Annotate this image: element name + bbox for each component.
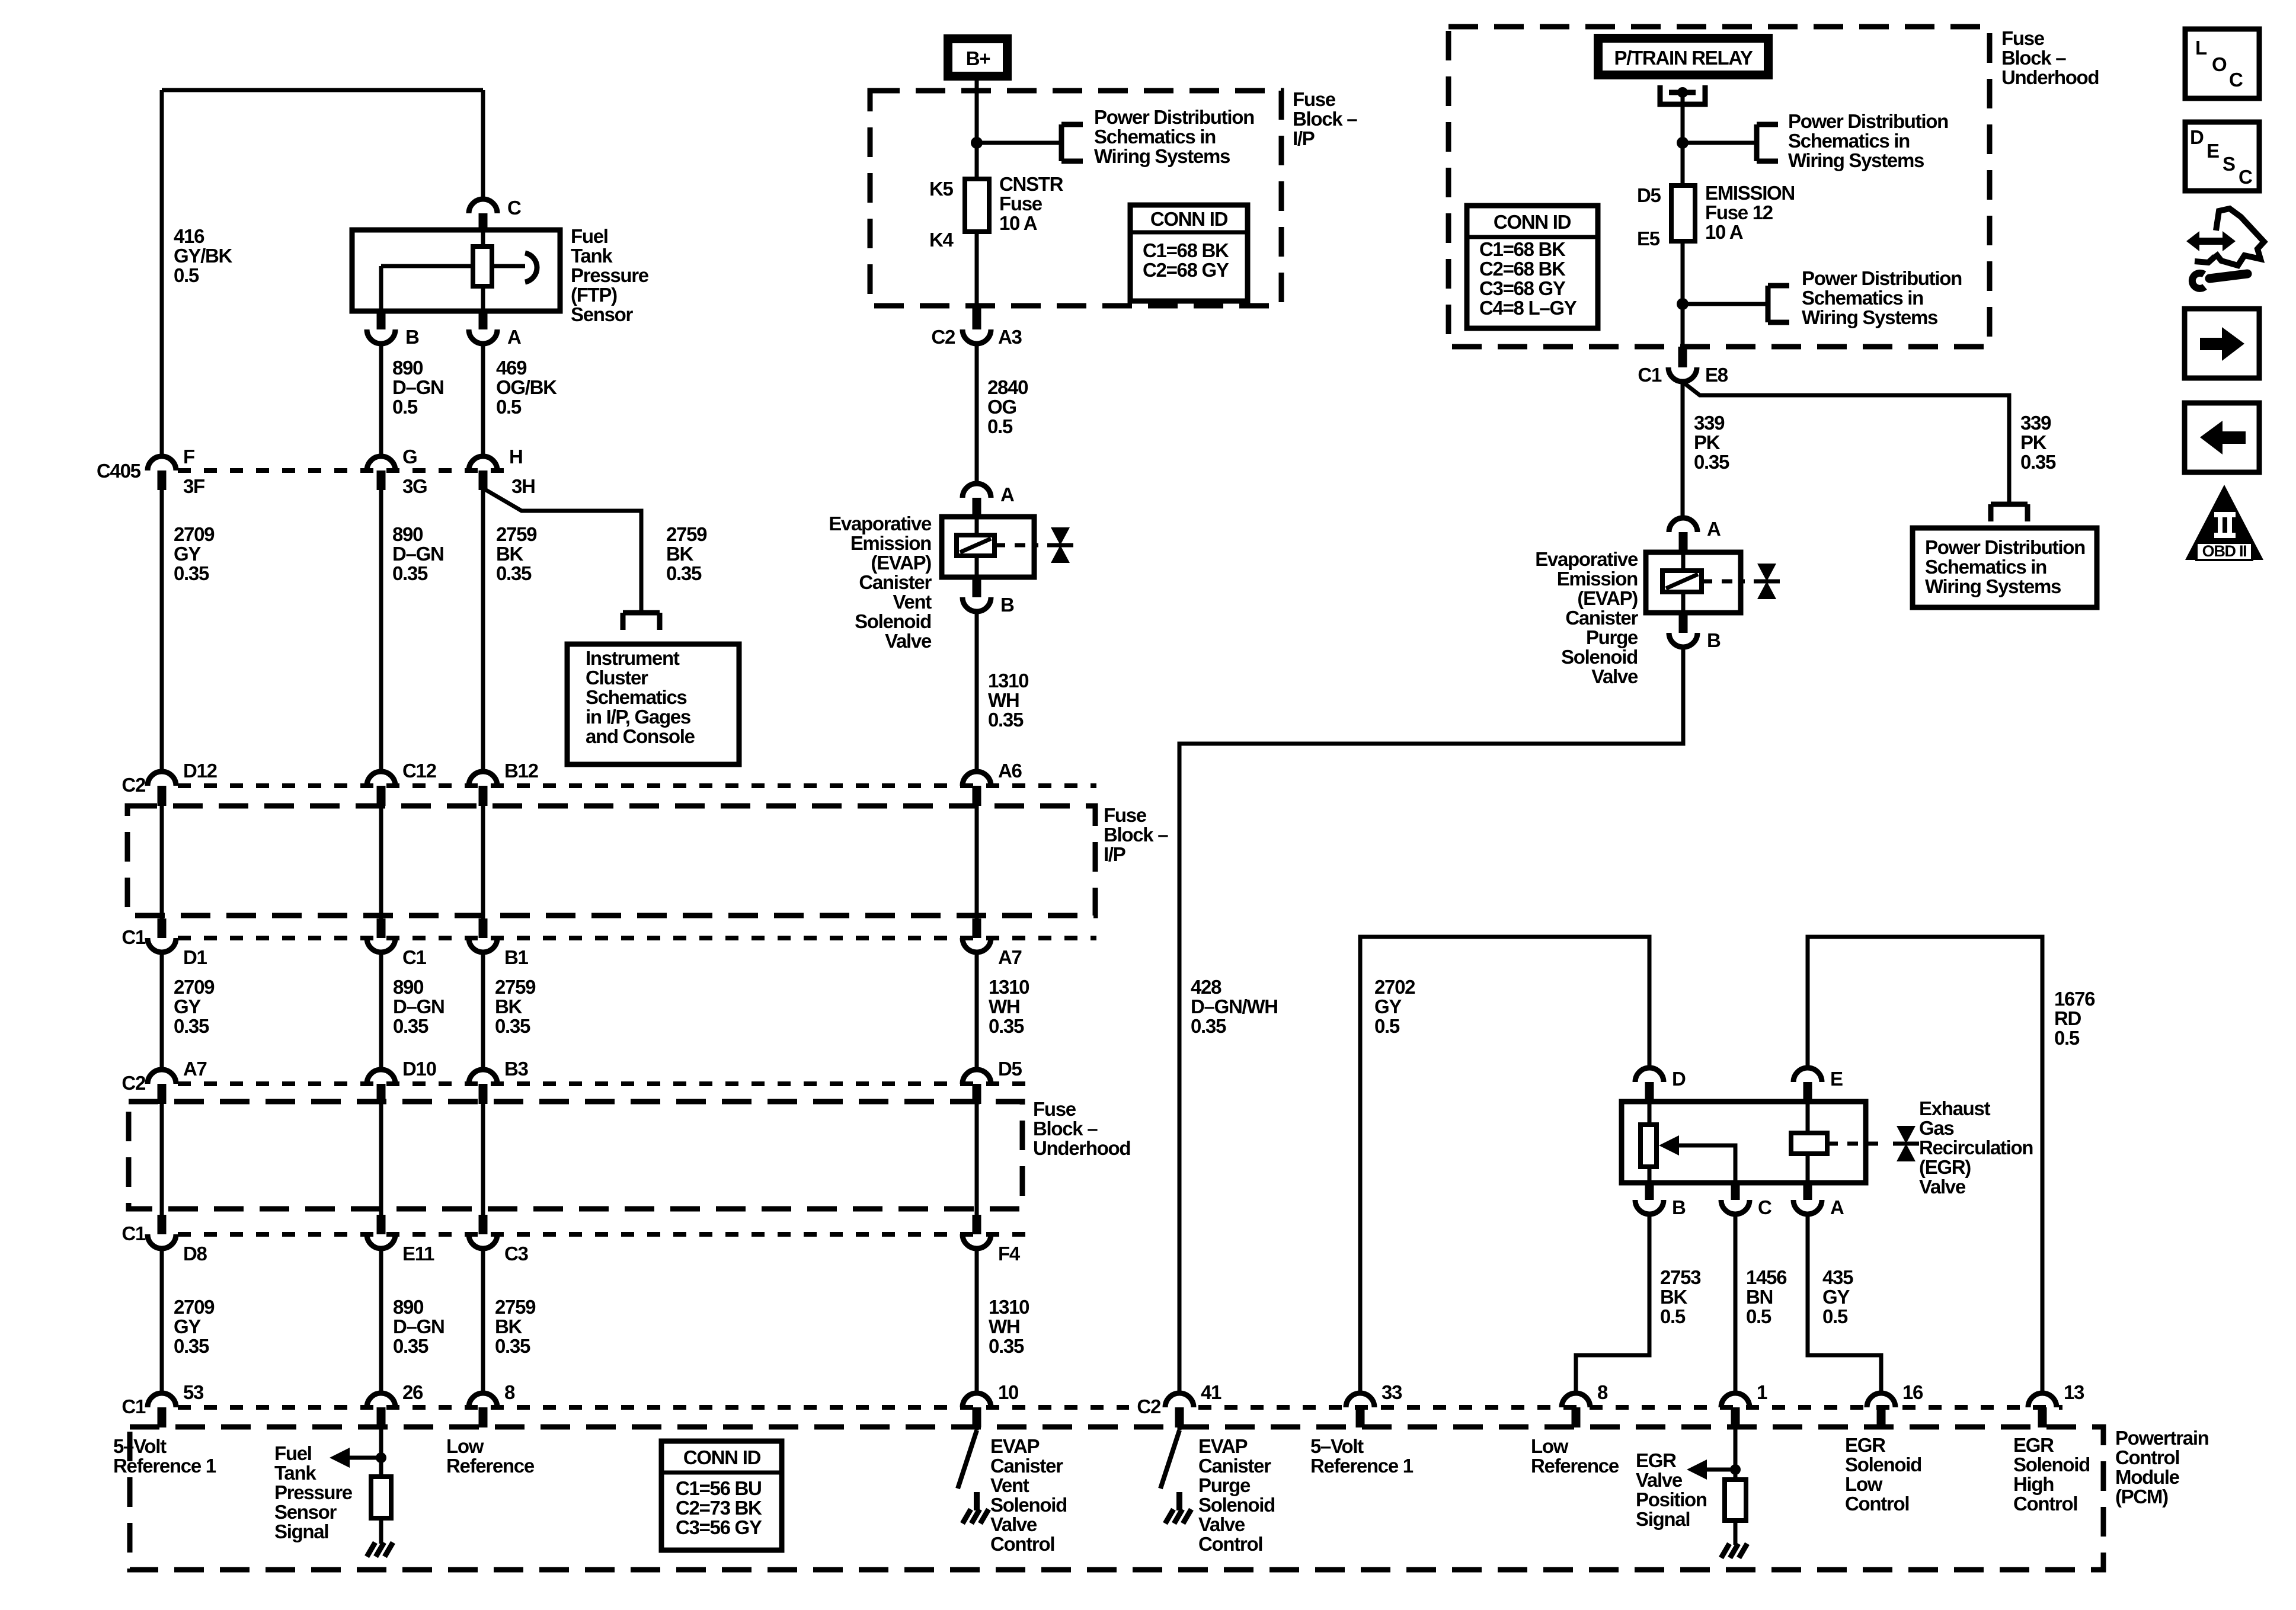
fork to power distribution 3 xyxy=(1768,286,1789,322)
connector C1 pin F4 xyxy=(962,1234,1021,1265)
svg-text:Valve: Valve xyxy=(1198,1513,1245,1535)
svg-text:C3=68 GY: C3=68 GY xyxy=(1479,277,1566,299)
terminal to instrument cluster xyxy=(623,613,660,630)
wire through underhood fuse block xyxy=(158,1104,167,1234)
svg-text:2759: 2759 xyxy=(495,976,536,998)
label 890 D-GN 0.5 xyxy=(392,357,444,418)
svg-text:Canister: Canister xyxy=(1565,607,1638,629)
svg-text:D1: D1 xyxy=(183,946,207,968)
wire 469 OG/BK from pin A xyxy=(481,344,485,456)
svg-text:S: S xyxy=(2223,153,2235,175)
connector row C1 dashed (D1) xyxy=(178,936,1096,940)
label Power Distribution Schematics box xyxy=(1925,536,2085,597)
svg-text:Fuse: Fuse xyxy=(2001,27,2045,49)
wire D1 to A7 xyxy=(975,952,979,1070)
wire through I/P fuse block xyxy=(158,806,167,938)
wire D8 to PCM xyxy=(481,1249,485,1393)
wire through underhood fuse block xyxy=(973,1104,981,1234)
svg-text:Valve: Valve xyxy=(990,1513,1037,1535)
connector C1 pin D1 xyxy=(148,938,207,968)
svg-text:Schematics: Schematics xyxy=(586,686,686,708)
connector row PCM dotted left xyxy=(178,1405,1129,1410)
label D5 fuse xyxy=(1637,184,1661,206)
svg-text:WH: WH xyxy=(989,1315,1019,1337)
svg-text:Valve: Valve xyxy=(885,630,932,652)
svg-text:Purge: Purge xyxy=(1586,626,1638,648)
svg-text:Fuse: Fuse xyxy=(1033,1098,1076,1120)
label 1676 RD 0.5 xyxy=(2054,988,2095,1049)
icon OBD II triangle xyxy=(2185,485,2263,560)
svg-text:C: C xyxy=(1758,1196,1771,1218)
svg-text:C3=56 GY: C3=56 GY xyxy=(676,1516,762,1538)
svg-text:33: 33 xyxy=(1382,1381,1402,1403)
label E5 fuse xyxy=(1637,228,1660,249)
connector C2 pin B3 xyxy=(469,1058,529,1104)
svg-text:Control: Control xyxy=(1845,1493,1909,1515)
svg-text:Control: Control xyxy=(990,1533,1054,1555)
EGR wiper arrow xyxy=(1659,1135,1735,1183)
svg-text:C1: C1 xyxy=(402,946,427,968)
svg-text:2709: 2709 xyxy=(174,976,215,998)
svg-text:P/TRAIN RELAY: P/TRAIN RELAY xyxy=(1614,47,1753,69)
svg-text:O: O xyxy=(2212,53,2227,75)
svg-text:339: 339 xyxy=(1694,412,1725,434)
junction dot B+ xyxy=(971,137,983,149)
icon back arrow box xyxy=(2185,403,2259,472)
EGR position signal arrow xyxy=(1687,1459,1735,1480)
wire 2840 OG xyxy=(975,344,979,484)
svg-text:BK: BK xyxy=(495,1315,523,1337)
label Fuel Tank Pressure (FTP) Sensor xyxy=(571,225,649,325)
EVAP purge driver switch xyxy=(1160,1427,1179,1489)
svg-text:GY: GY xyxy=(174,543,201,565)
svg-text:C2=68 BK: C2=68 BK xyxy=(1479,258,1566,280)
fuse block I/P dashed box 2 xyxy=(127,806,1095,916)
label EGR Solenoid High Control xyxy=(2013,1434,2090,1515)
svg-text:Underhood: Underhood xyxy=(1033,1137,1130,1159)
label Fuse Block I/P 2 xyxy=(1104,804,1168,865)
svg-text:A: A xyxy=(507,326,521,348)
svg-text:Solenoid: Solenoid xyxy=(855,610,931,632)
fuse EMISSION xyxy=(1671,185,1695,241)
svg-text:D10: D10 xyxy=(402,1058,436,1080)
svg-text:CONN ID: CONN ID xyxy=(1494,211,1571,233)
svg-text:0.35: 0.35 xyxy=(393,1015,428,1037)
svg-text:Block –: Block – xyxy=(2001,47,2066,69)
svg-text:D–GN: D–GN xyxy=(393,996,445,1017)
wire through I/P fuse block xyxy=(377,806,386,938)
svg-text:Fuse: Fuse xyxy=(999,193,1043,215)
svg-text:WH: WH xyxy=(988,689,1019,711)
label 5-Volt Reference 1 right xyxy=(1310,1435,1414,1477)
svg-text:Low: Low xyxy=(446,1435,484,1457)
svg-text:Tank: Tank xyxy=(571,245,613,267)
wire resistor to ground xyxy=(379,1518,383,1544)
svg-text:10: 10 xyxy=(998,1381,1018,1403)
wire label xyxy=(495,1296,536,1357)
svg-text:Block –: Block – xyxy=(1033,1118,1098,1140)
svg-text:0.5: 0.5 xyxy=(496,396,522,418)
svg-text:435: 435 xyxy=(1822,1266,1853,1288)
svg-text:GY: GY xyxy=(174,1315,201,1337)
svg-text:C3: C3 xyxy=(504,1243,529,1265)
relay socket symbol xyxy=(1660,85,1705,104)
svg-text:B+: B+ xyxy=(966,47,990,69)
svg-text:EVAP: EVAP xyxy=(1198,1435,1248,1457)
EVAP canister purge solenoid valve box xyxy=(1646,552,1741,613)
svg-text:Solenoid: Solenoid xyxy=(2013,1454,2090,1475)
wire 1676 RD loop xyxy=(1808,937,2042,1393)
svg-text:Schematics in: Schematics in xyxy=(1925,556,2046,578)
label K5 xyxy=(929,178,954,200)
fuse block Underhood dashed box 2 xyxy=(129,1102,1022,1209)
svg-text:D–GN: D–GN xyxy=(392,543,444,565)
EVAP vent valve pin A xyxy=(962,484,1014,518)
svg-text:C1: C1 xyxy=(121,926,146,948)
connector C405 pin F xyxy=(148,446,204,497)
wire pin 1 to resistor xyxy=(1734,1427,1738,1480)
wire 890 D-GN from pin B xyxy=(379,344,383,456)
FTP pin B xyxy=(367,311,419,348)
label C405 xyxy=(97,460,141,482)
wire through I/P fuse block xyxy=(479,806,488,938)
wire 890 D-GN seg2 xyxy=(379,490,383,772)
svg-text:Canister: Canister xyxy=(859,571,932,593)
connector C405 pin G xyxy=(367,446,427,497)
wire 2709 GY seg1 xyxy=(160,490,164,772)
wire EGR resistor to ground xyxy=(1734,1521,1738,1545)
connector C1 pin C3 xyxy=(469,1234,529,1265)
connector row C2 dashed (A7) xyxy=(178,1081,1025,1086)
svg-text:D5: D5 xyxy=(1637,184,1661,206)
svg-text:C4=8 L–GY: C4=8 L–GY xyxy=(1479,297,1577,319)
svg-text:Sensor: Sensor xyxy=(571,303,634,325)
connector C2 pin D12 xyxy=(148,760,218,806)
svg-text:Pressure: Pressure xyxy=(571,264,649,286)
svg-text:EGR: EGR xyxy=(2013,1434,2054,1456)
svg-text:(EVAP): (EVAP) xyxy=(1577,587,1638,609)
svg-text:Powertrain: Powertrain xyxy=(2115,1427,2209,1449)
svg-text:0.35: 0.35 xyxy=(174,1335,209,1357)
instrument cluster box xyxy=(567,644,739,764)
svg-text:EGR: EGR xyxy=(1636,1449,1677,1471)
svg-text:Canister: Canister xyxy=(990,1455,1063,1477)
svg-text:D–GN/WH: D–GN/WH xyxy=(1191,996,1278,1017)
connector C2 pin D5 xyxy=(962,1058,1022,1104)
svg-text:(PCM): (PCM) xyxy=(2115,1486,2168,1507)
svg-text:B3: B3 xyxy=(504,1058,529,1080)
svg-text:0.35: 0.35 xyxy=(392,562,428,584)
label Low Reference left xyxy=(446,1435,535,1477)
wire left column F segment xyxy=(160,90,164,456)
svg-text:890: 890 xyxy=(392,357,423,379)
CONN ID box I/P xyxy=(1130,205,1248,301)
wire D8 to PCM xyxy=(379,1249,383,1393)
svg-text:Reference 1: Reference 1 xyxy=(1310,1455,1414,1477)
svg-text:PK: PK xyxy=(2020,431,2047,453)
wire D8 to PCM xyxy=(160,1249,164,1393)
svg-text:Signal: Signal xyxy=(1636,1508,1690,1530)
svg-text:Canister: Canister xyxy=(1198,1455,1271,1477)
exhaust gas recirculation EGR valve box xyxy=(1622,1102,1866,1183)
svg-text:OBD II: OBD II xyxy=(2202,542,2247,560)
svg-text:Emission: Emission xyxy=(850,532,931,554)
FTP sensor resistor xyxy=(473,230,492,311)
label C1 row PCM xyxy=(121,1395,146,1417)
label 2759 BK 0.35 branch xyxy=(666,523,707,584)
svg-text:Schematics in: Schematics in xyxy=(1094,126,1216,148)
svg-text:Low: Low xyxy=(1531,1435,1569,1457)
svg-text:41: 41 xyxy=(1201,1381,1221,1403)
connector C405 pin H xyxy=(469,446,535,497)
wire fuse to junction 2 xyxy=(1681,241,1685,347)
EVAP purge valve pin A xyxy=(1669,518,1721,552)
svg-text:D–GN: D–GN xyxy=(393,1315,445,1337)
svg-text:Position: Position xyxy=(1636,1489,1707,1510)
svg-text:0.35: 0.35 xyxy=(989,1335,1024,1357)
svg-text:339: 339 xyxy=(2020,412,2051,434)
PCM pin 41 xyxy=(1165,1381,1221,1427)
wire 2753 BK xyxy=(1576,1214,1649,1393)
svg-text:B: B xyxy=(1707,629,1721,651)
label Exhaust Gas Recirculation (EGR) Valve xyxy=(1919,1097,2033,1198)
svg-text:EMISSION: EMISSION xyxy=(1705,182,1795,204)
svg-text:C2: C2 xyxy=(1137,1395,1161,1417)
svg-text:L: L xyxy=(2195,37,2207,59)
wire through underhood fuse block xyxy=(377,1104,386,1234)
svg-text:0.5: 0.5 xyxy=(1374,1015,1400,1037)
EVAP vent ground contact xyxy=(962,1492,989,1523)
wire 1456 BN xyxy=(1734,1214,1738,1393)
svg-text:A6: A6 xyxy=(998,760,1022,782)
svg-text:8: 8 xyxy=(1597,1381,1608,1403)
CONN ID box Underhood xyxy=(1467,206,1598,328)
svg-text:C12: C12 xyxy=(402,760,437,782)
wire 1310 WH seg1 xyxy=(975,612,979,772)
label C2 row D12 xyxy=(121,774,146,796)
wire D1 to A7 xyxy=(160,952,164,1070)
wire pin 26 to resistor xyxy=(379,1427,383,1477)
svg-text:H: H xyxy=(509,446,523,468)
icon repair instructions (arrow and wrench) xyxy=(2186,209,2264,289)
svg-text:0.5: 0.5 xyxy=(392,396,418,418)
svg-text:RD: RD xyxy=(2054,1007,2081,1029)
junction dot relay 2 xyxy=(1677,298,1689,310)
svg-text:Pressure: Pressure xyxy=(274,1481,353,1503)
svg-text:OG/BK: OG/BK xyxy=(496,376,557,398)
wire branch to power distribution 3 xyxy=(1683,302,1768,306)
svg-text:C: C xyxy=(2239,166,2252,188)
PCM pin 16 xyxy=(1867,1381,1923,1427)
svg-text:F: F xyxy=(183,446,194,468)
svg-text:0.35: 0.35 xyxy=(495,1015,530,1037)
svg-text:A: A xyxy=(1707,518,1721,540)
connector C1 pin D8 xyxy=(148,1234,207,1265)
svg-text:A: A xyxy=(1000,484,1014,505)
svg-text:8: 8 xyxy=(504,1381,515,1403)
wire label xyxy=(495,976,536,1037)
svg-text:A7: A7 xyxy=(998,946,1022,968)
ground FTP signal xyxy=(367,1542,393,1557)
svg-text:Purge: Purge xyxy=(1198,1474,1251,1496)
svg-text:C2=73 BK: C2=73 BK xyxy=(676,1497,762,1519)
wire branch to power distribution 1 xyxy=(977,141,1061,145)
junction dot relay 1 xyxy=(1677,137,1689,149)
EVAP canister vent solenoid valve box xyxy=(942,517,1034,577)
label 2709 GY 0.35 a xyxy=(174,523,215,584)
icon LOC box xyxy=(2185,29,2259,98)
svg-text:C1: C1 xyxy=(1638,364,1662,386)
svg-text:0.35: 0.35 xyxy=(393,1335,428,1357)
FTP sensor pin C xyxy=(469,197,521,231)
svg-text:E11: E11 xyxy=(402,1243,434,1265)
FTP pin A xyxy=(469,311,521,348)
label EVAP Canister Purge Solenoid Valve Control xyxy=(1198,1435,1275,1555)
PCM pin 33 xyxy=(1346,1381,1402,1427)
EVAP purge valve pin B xyxy=(1669,613,1721,651)
PCM pin 8 xyxy=(469,1381,515,1427)
label 339 PK 0.35 left xyxy=(1694,412,1729,473)
PCM pin 53 xyxy=(148,1381,204,1427)
EGR valve pin C xyxy=(1721,1183,1771,1218)
svg-text:Block –: Block – xyxy=(1104,824,1168,846)
svg-text:Schematics in: Schematics in xyxy=(1802,287,1923,309)
connector C2/A3 pin xyxy=(931,306,1022,348)
PCM pin 10 xyxy=(962,1381,1018,1427)
svg-text:Evaporative: Evaporative xyxy=(1535,548,1638,570)
svg-text:Reference: Reference xyxy=(446,1455,535,1477)
svg-text:I/P: I/P xyxy=(1104,843,1125,865)
svg-text:(EVAP): (EVAP) xyxy=(871,552,931,574)
svg-text:Block –: Block – xyxy=(1293,108,1357,130)
label EMISSION Fuse 12 10A xyxy=(1705,182,1795,243)
svg-text:Solenoid: Solenoid xyxy=(1561,646,1638,668)
svg-text:Instrument: Instrument xyxy=(586,647,680,669)
PCM pin 26 xyxy=(367,1381,423,1427)
svg-text:B: B xyxy=(405,326,419,348)
label 339 PK 0.35 right xyxy=(2020,412,2056,473)
svg-text:C: C xyxy=(507,197,521,219)
label C2 row A7 xyxy=(121,1072,146,1094)
wire label xyxy=(393,1296,445,1357)
connector C2 pin A7 xyxy=(148,1058,207,1104)
svg-text:0.5: 0.5 xyxy=(1746,1305,1771,1327)
svg-text:2759: 2759 xyxy=(496,523,537,545)
label Power Distribution Schematics 1 xyxy=(1094,106,1254,167)
label 469 OG/BK 0.5 xyxy=(496,357,557,418)
svg-text:16: 16 xyxy=(1902,1381,1923,1403)
EGR valve pin B xyxy=(1635,1183,1686,1218)
svg-text:E8: E8 xyxy=(1705,364,1728,386)
wire fuse to connector xyxy=(975,232,979,306)
label Instrument Cluster Schematics xyxy=(586,647,695,747)
svg-text:Underhood: Underhood xyxy=(2001,66,2099,88)
label K4 xyxy=(929,229,954,251)
svg-text:Wiring Systems: Wiring Systems xyxy=(1802,306,1937,328)
label Powertrain Control Module (PCM) xyxy=(2115,1427,2209,1507)
svg-text:F4: F4 xyxy=(998,1243,1021,1265)
svg-text:B12: B12 xyxy=(504,760,539,782)
label 1310 WH 0.35 seg1 xyxy=(988,670,1028,731)
svg-text:Valve: Valve xyxy=(1919,1176,1966,1198)
svg-text:C1=56 BU: C1=56 BU xyxy=(676,1477,762,1499)
svg-text:428: 428 xyxy=(1191,976,1221,998)
svg-text:C1=68 BK: C1=68 BK xyxy=(1143,239,1229,261)
label Evaporative Emission (EVAP) Canister Vent Solenoid Valve xyxy=(829,513,932,652)
connector C1 pin E11 xyxy=(367,1234,434,1265)
svg-text:Solenoid: Solenoid xyxy=(990,1494,1067,1516)
fuse block Underhood dashed box 1 xyxy=(1448,27,1990,347)
svg-text:in I/P, Gages: in I/P, Gages xyxy=(586,706,690,728)
svg-text:Fuse 12: Fuse 12 xyxy=(1705,201,1773,223)
svg-text:2709: 2709 xyxy=(174,523,215,545)
svg-text:BK: BK xyxy=(666,543,694,565)
svg-text:1676: 1676 xyxy=(2054,988,2095,1010)
svg-text:CNSTR: CNSTR xyxy=(999,173,1064,195)
svg-text:B1: B1 xyxy=(504,946,529,968)
label Fuse Block Underhood 2 xyxy=(1033,1098,1130,1159)
svg-text:2709: 2709 xyxy=(174,1296,215,1318)
svg-text:3H: 3H xyxy=(511,475,535,497)
FTP wiper line xyxy=(381,266,525,311)
EGR position signal junction dot xyxy=(1730,1464,1741,1475)
wire 3H branch to instrument cluster xyxy=(483,488,641,613)
svg-text:Control: Control xyxy=(2013,1493,2077,1515)
svg-text:GY: GY xyxy=(1822,1286,1850,1308)
EGR valve pin A xyxy=(1793,1183,1844,1218)
svg-text:0.35: 0.35 xyxy=(666,562,702,584)
label Low Reference right xyxy=(1531,1435,1619,1477)
svg-text:Sensor: Sensor xyxy=(274,1501,337,1523)
label 1456 BN 0.5 xyxy=(1746,1266,1787,1327)
connector C1/E8 pin xyxy=(1638,347,1728,386)
svg-text:E: E xyxy=(1830,1068,1843,1090)
EVAP vent driver switch xyxy=(958,1427,977,1489)
wire label xyxy=(174,1296,215,1357)
svg-text:0.5: 0.5 xyxy=(2054,1027,2080,1049)
connector C1 pin C1 xyxy=(367,938,427,968)
svg-text:Solenoid: Solenoid xyxy=(1198,1494,1275,1516)
label CNSTR Fuse 10A xyxy=(999,173,1064,234)
svg-text:2840: 2840 xyxy=(987,376,1028,398)
svg-text:3F: 3F xyxy=(183,475,204,497)
svg-text:WH: WH xyxy=(989,996,1019,1017)
svg-text:BK: BK xyxy=(495,996,523,1017)
svg-text:0.35: 0.35 xyxy=(496,562,532,584)
svg-text:Reference: Reference xyxy=(1531,1455,1619,1477)
wire label xyxy=(989,1296,1029,1357)
svg-text:K4: K4 xyxy=(929,229,954,251)
svg-text:1310: 1310 xyxy=(989,1296,1029,1318)
connector C1 pin B1 xyxy=(469,938,529,968)
label 428 D-GN/WH 0.35 xyxy=(1191,976,1278,1037)
EVAP purge ground contact xyxy=(1165,1492,1191,1523)
wire relay to junction xyxy=(1681,92,1685,185)
label EVAP Canister Vent Solenoid Valve Control xyxy=(990,1435,1067,1555)
svg-text:K5: K5 xyxy=(929,178,954,200)
EGR valve pin D xyxy=(1635,1068,1686,1102)
FTP signal pull resistor xyxy=(371,1477,391,1518)
connector row PCM dotted right xyxy=(1198,1405,2062,1410)
wire label xyxy=(393,976,445,1037)
svg-text:Wiring Systems: Wiring Systems xyxy=(1788,149,1924,171)
svg-text:Power Distribution: Power Distribution xyxy=(1802,267,1962,289)
wire 339 PK left xyxy=(1681,382,1685,519)
svg-text:(EGR): (EGR) xyxy=(1919,1156,1971,1178)
svg-text:Power Distribution: Power Distribution xyxy=(1925,536,2085,558)
svg-text:3G: 3G xyxy=(402,475,427,497)
svg-text:1: 1 xyxy=(1757,1381,1767,1403)
